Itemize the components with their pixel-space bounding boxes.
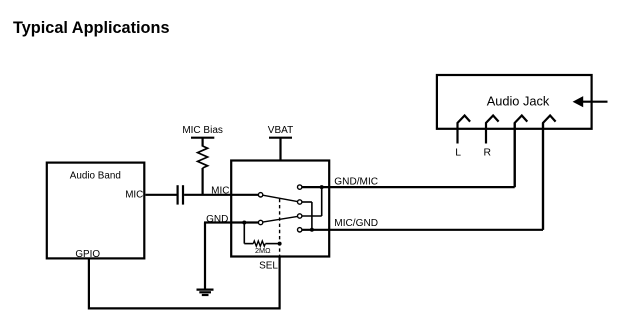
svg-text:MIC Bias: MIC Bias [182, 125, 223, 136]
svg-text:L: L [455, 147, 461, 158]
svg-text:VBAT: VBAT [268, 125, 293, 136]
svg-text:Typical Applications: Typical Applications [13, 19, 170, 37]
svg-text:2MΩ: 2MΩ [255, 246, 271, 255]
svg-text:MIC: MIC [211, 185, 229, 196]
svg-text:MIC/GND: MIC/GND [334, 218, 378, 229]
svg-text:R: R [483, 147, 491, 158]
svg-text:SEL: SEL [259, 261, 278, 272]
svg-text:GND/MIC: GND/MIC [334, 176, 378, 187]
svg-text:Audio Jack: Audio Jack [487, 93, 550, 108]
svg-text:Audio Band: Audio Band [70, 171, 121, 182]
svg-text:MIC: MIC [125, 189, 143, 200]
svg-text:GPIO: GPIO [75, 249, 100, 260]
